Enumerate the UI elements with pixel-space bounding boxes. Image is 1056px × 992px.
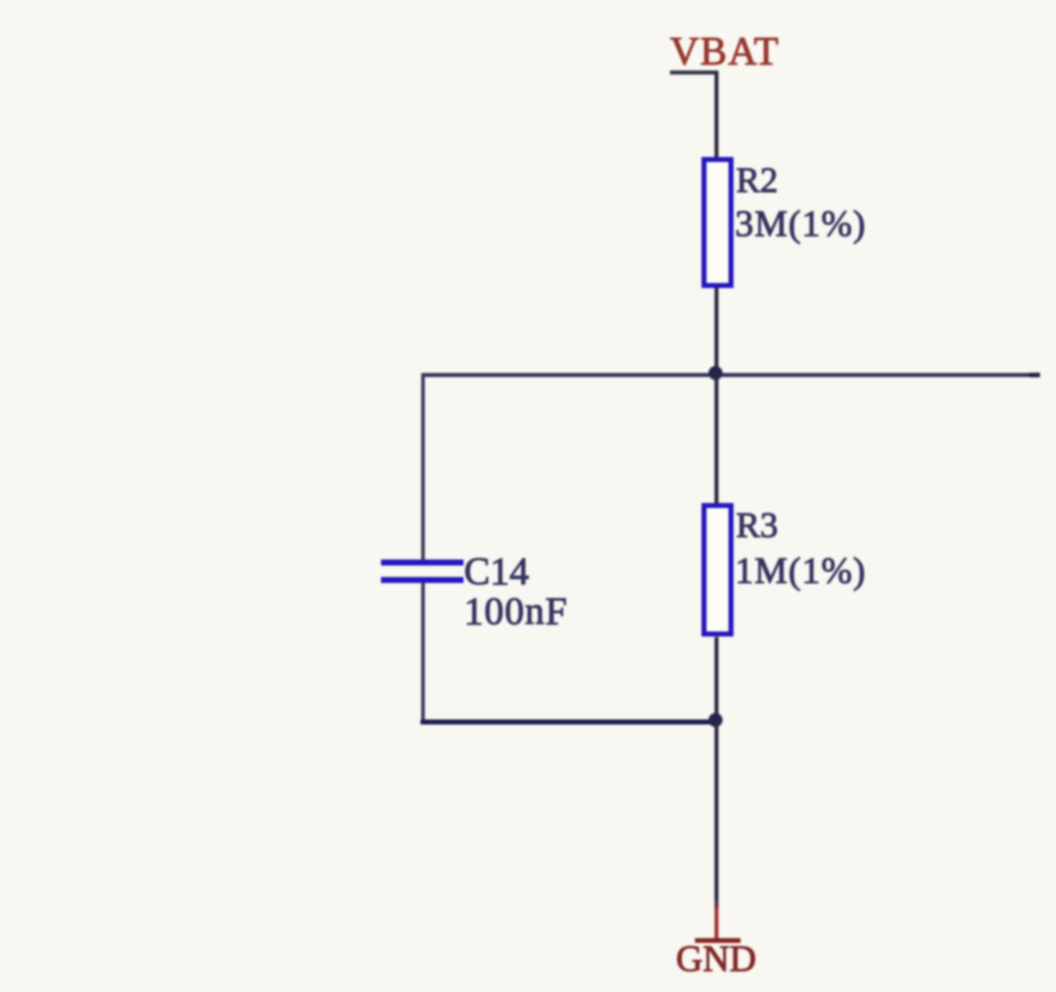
wire end cap right <box>1029 373 1040 378</box>
svg-text:VBAT: VBAT <box>670 29 780 74</box>
svg-text:100nF: 100nF <box>464 590 568 633</box>
wire VBAT to R2 pin1 <box>715 73 719 159</box>
junction node A <box>709 366 723 380</box>
wire node A to R3 pin1 <box>715 375 719 504</box>
wire C14 pin2 down to bottom rail <box>421 582 425 724</box>
svg-text:1M(1%): 1M(1%) <box>735 551 866 592</box>
wire navy-to-red blend above ground <box>715 900 719 908</box>
svg-text:R3: R3 <box>736 505 778 545</box>
power port VBAT bar <box>670 71 719 75</box>
capacitor C14 top plate <box>381 560 464 566</box>
svg-text:C14: C14 <box>464 550 529 593</box>
wire R2 pin2 to node A <box>715 288 719 375</box>
wire bottom rail C14 to node B <box>421 720 718 725</box>
ground pin red segment <box>715 908 719 940</box>
svg-text:R2: R2 <box>736 160 778 200</box>
resistor R2 body <box>704 160 731 286</box>
wire left branch down to C14 pin1 <box>421 373 425 561</box>
wire node B down to GND <box>715 721 719 904</box>
svg-text:GND: GND <box>676 939 756 980</box>
capacitor C14 bottom plate <box>381 577 464 583</box>
wire node A horizontal to right edge <box>423 373 1041 377</box>
junction node B <box>709 713 723 727</box>
resistor R3 body <box>704 506 731 635</box>
svg-text:3M(1%): 3M(1%) <box>735 204 866 245</box>
ground bar <box>695 938 741 943</box>
wire R3 pin2 to node B <box>715 637 719 721</box>
